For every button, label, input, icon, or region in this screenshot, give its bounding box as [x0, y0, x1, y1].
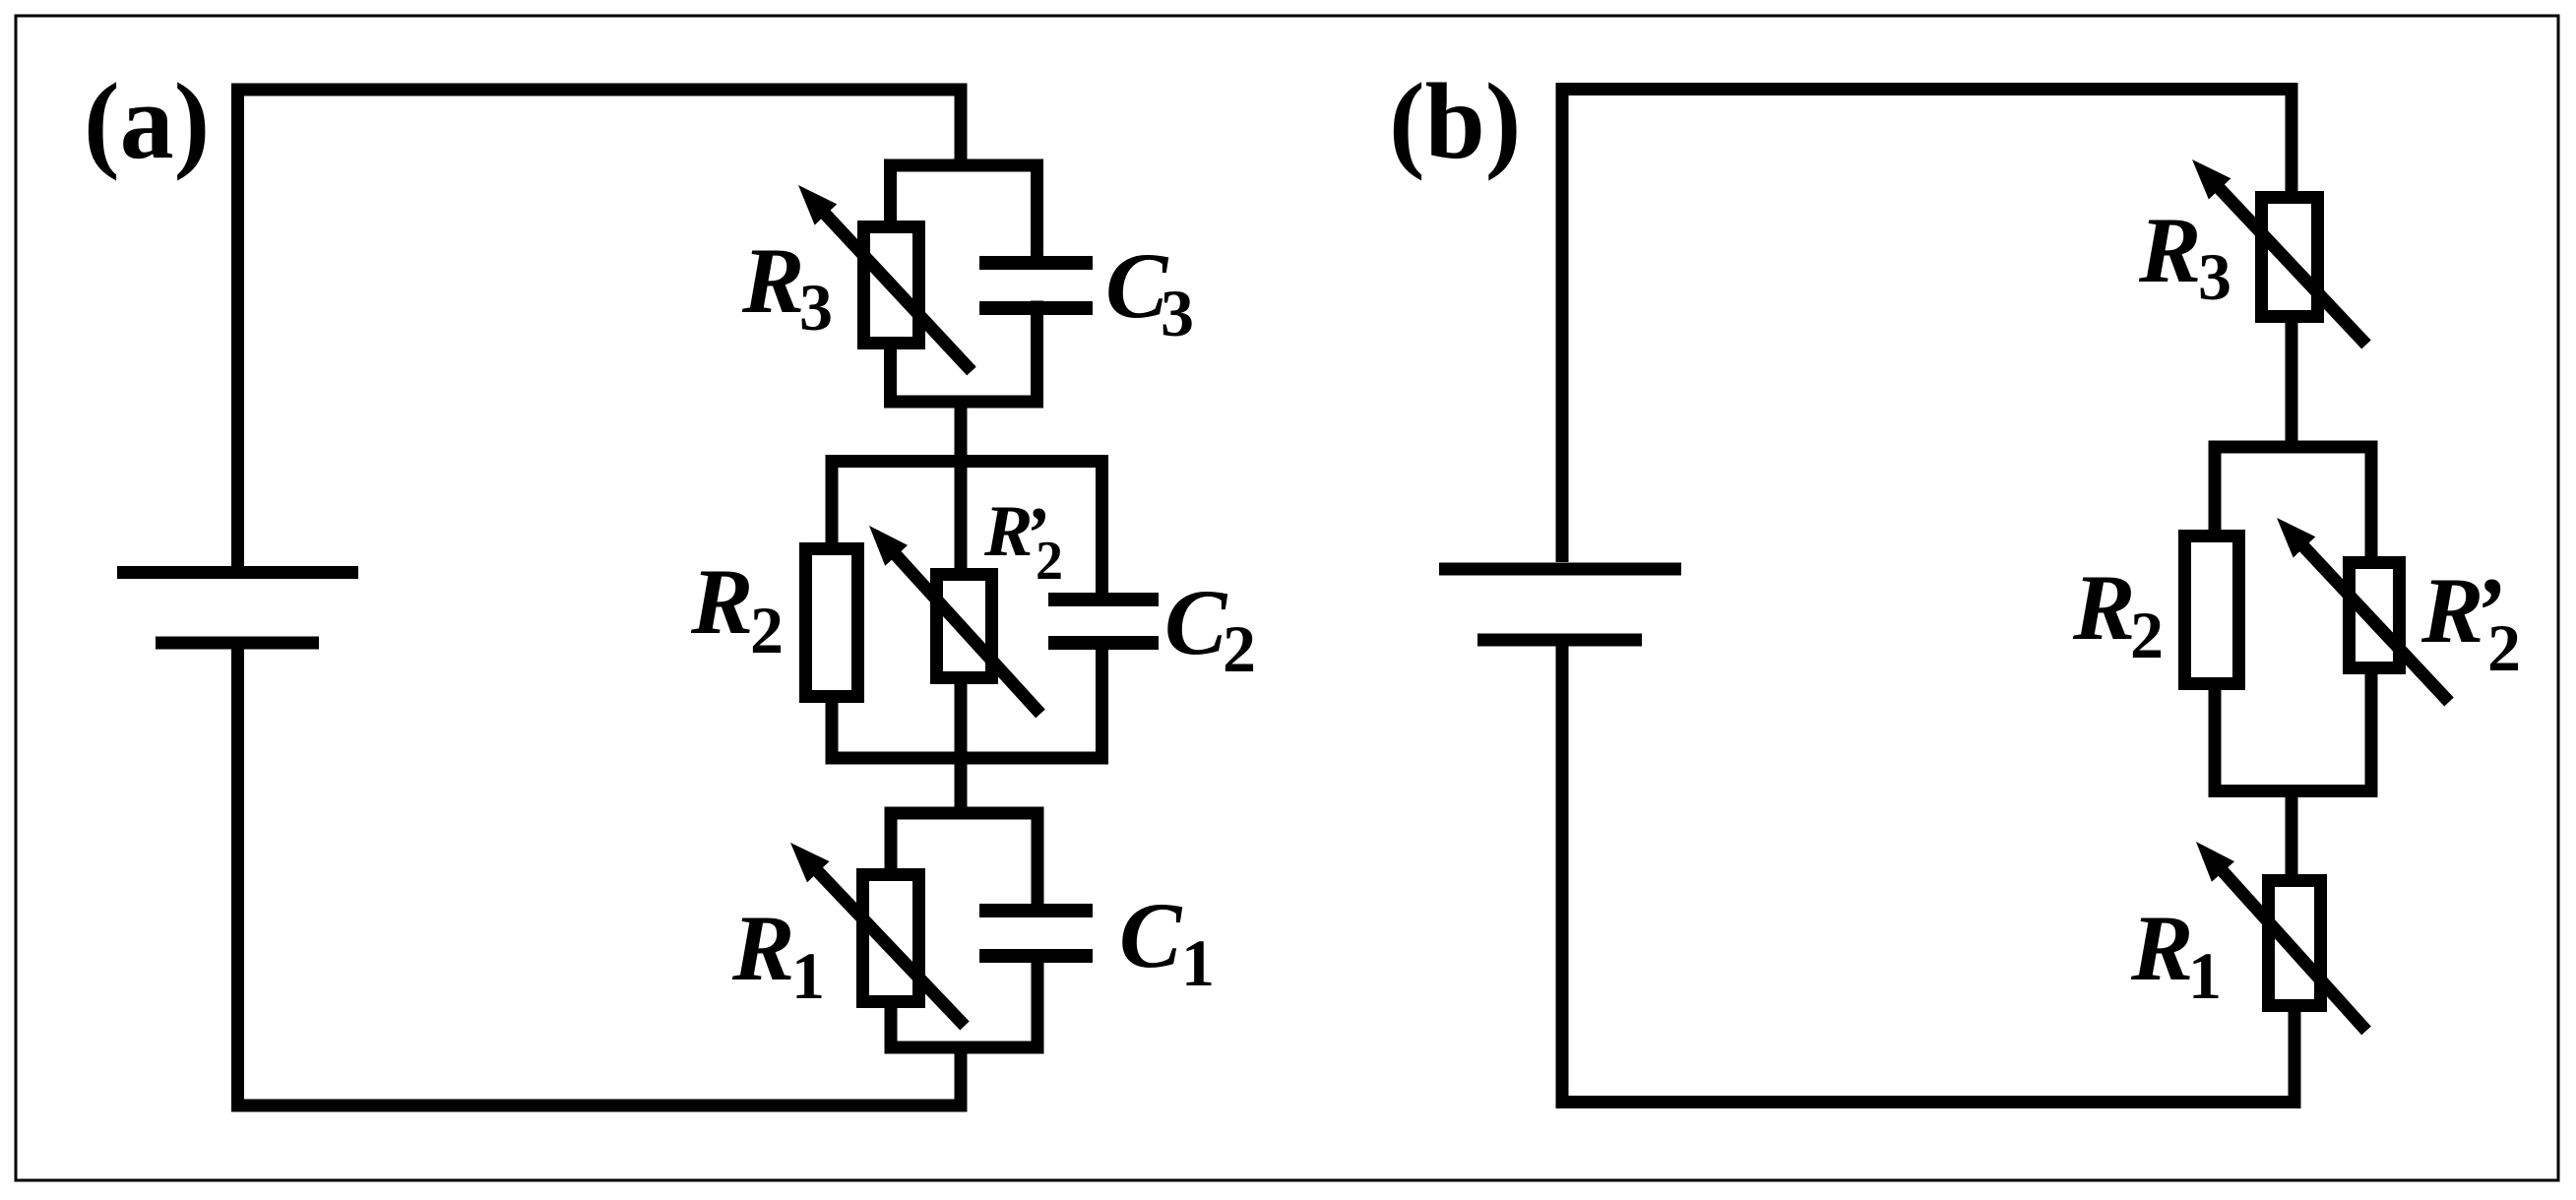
- wire (a) riser to R3 block: [955, 84, 968, 172]
- wire (a) top: [231, 84, 968, 96]
- wire (b) bottom: [1556, 1096, 2301, 1108]
- label R2p b: [2420, 558, 2521, 685]
- wire R3 b to block: [2286, 317, 2298, 454]
- node frame R3-C3 parallel block: [891, 165, 1037, 402]
- arrow of variable resistor R2p: [869, 526, 1040, 714]
- svg-text:2: 2: [2130, 598, 2164, 672]
- resistor R3 (variable): [864, 227, 919, 344]
- battery V1 short plate: [156, 637, 319, 650]
- svg-text:3: 3: [1161, 276, 1194, 350]
- label R3 b: [2138, 198, 2231, 314]
- svg-text:(b): (b): [1389, 61, 1521, 181]
- svg-text:(a): (a): [84, 61, 210, 181]
- svg-text:3: 3: [2198, 239, 2231, 314]
- arrow of variable resistor R1 b: [2196, 842, 2366, 1031]
- svg-text:2: 2: [1036, 531, 1063, 592]
- panel label (a): [84, 61, 210, 181]
- label C1: [1119, 883, 1215, 1000]
- label R3: [741, 228, 833, 345]
- svg-text:R: R: [2072, 555, 2135, 660]
- capacitor C3: [979, 263, 1093, 308]
- svg-text:R: R: [690, 549, 753, 654]
- label C3: [1105, 233, 1194, 350]
- node frame R2-R2p parallel block b: [2215, 447, 2371, 791]
- node frame R1-C1 parallel block: [891, 813, 1037, 1047]
- wire (a) bottom: [231, 1100, 966, 1112]
- label R1: [731, 896, 825, 1013]
- resistor R2p b (variable): [2350, 563, 2400, 668]
- arrow of variable resistor R2p b: [2277, 518, 2449, 702]
- resistor R2p (variable): [937, 575, 992, 678]
- wire (b) top: [1556, 83, 2298, 95]
- wire (b) left lower: [1556, 647, 1569, 1109]
- svg-text:3: 3: [799, 270, 833, 345]
- label R2 b: [2072, 555, 2164, 672]
- resistor R1 b (variable): [2269, 881, 2321, 1006]
- capacitor C2: [1048, 600, 1159, 643]
- svg-text:R: R: [2138, 198, 2201, 302]
- label R2p: [983, 491, 1063, 592]
- wire (b) left upper: [1556, 83, 1569, 562]
- svg-text:R: R: [2130, 896, 2193, 1000]
- svg-text:C: C: [1164, 570, 1228, 674]
- wire (a) left upper: [231, 84, 244, 567]
- svg-text:1: 1: [791, 938, 825, 1013]
- node frame R2-R2p-C2 parallel block: [832, 462, 1102, 759]
- battery V1 long plate: [117, 566, 358, 579]
- wire block b to R1 b: [2286, 791, 2298, 881]
- svg-text:2: 2: [2487, 610, 2521, 685]
- svg-text:C: C: [1119, 883, 1183, 987]
- wire block2 to block1: [955, 758, 968, 819]
- wire R1 b to bottom: [2289, 1006, 2301, 1109]
- arrow of variable resistor R1: [790, 843, 965, 1026]
- svg-text:2: 2: [750, 593, 784, 667]
- resistor R2: [806, 549, 858, 697]
- arrow of variable resistor R3 b: [2192, 159, 2366, 345]
- battery V2 long plate: [1439, 563, 1681, 576]
- resistor R2 b: [2185, 537, 2239, 684]
- wire block3 to block2: [955, 402, 968, 468]
- resistor R1 (variable): [863, 875, 919, 1002]
- capacitor C1: [979, 911, 1093, 956]
- battery V2 short plate: [1477, 634, 1642, 647]
- label R2: [690, 549, 784, 667]
- wire block1 to bottom: [955, 1047, 968, 1112]
- wire centre rail of block 2: [955, 462, 968, 759]
- resistor R3 b (variable): [2262, 198, 2318, 317]
- label C2: [1164, 570, 1256, 686]
- svg-text:1: 1: [2188, 938, 2222, 1013]
- wire (b) riser to R3: [2286, 83, 2298, 202]
- svg-text:2: 2: [1223, 611, 1256, 686]
- svg-text:1: 1: [1181, 925, 1215, 1000]
- svg-text:R: R: [741, 228, 804, 333]
- label R1 b: [2130, 896, 2222, 1013]
- arrow of variable resistor R3: [798, 185, 972, 371]
- panel label (b): [1389, 61, 1521, 181]
- svg-text:R: R: [731, 896, 794, 1000]
- wire (a) left lower: [231, 650, 244, 1112]
